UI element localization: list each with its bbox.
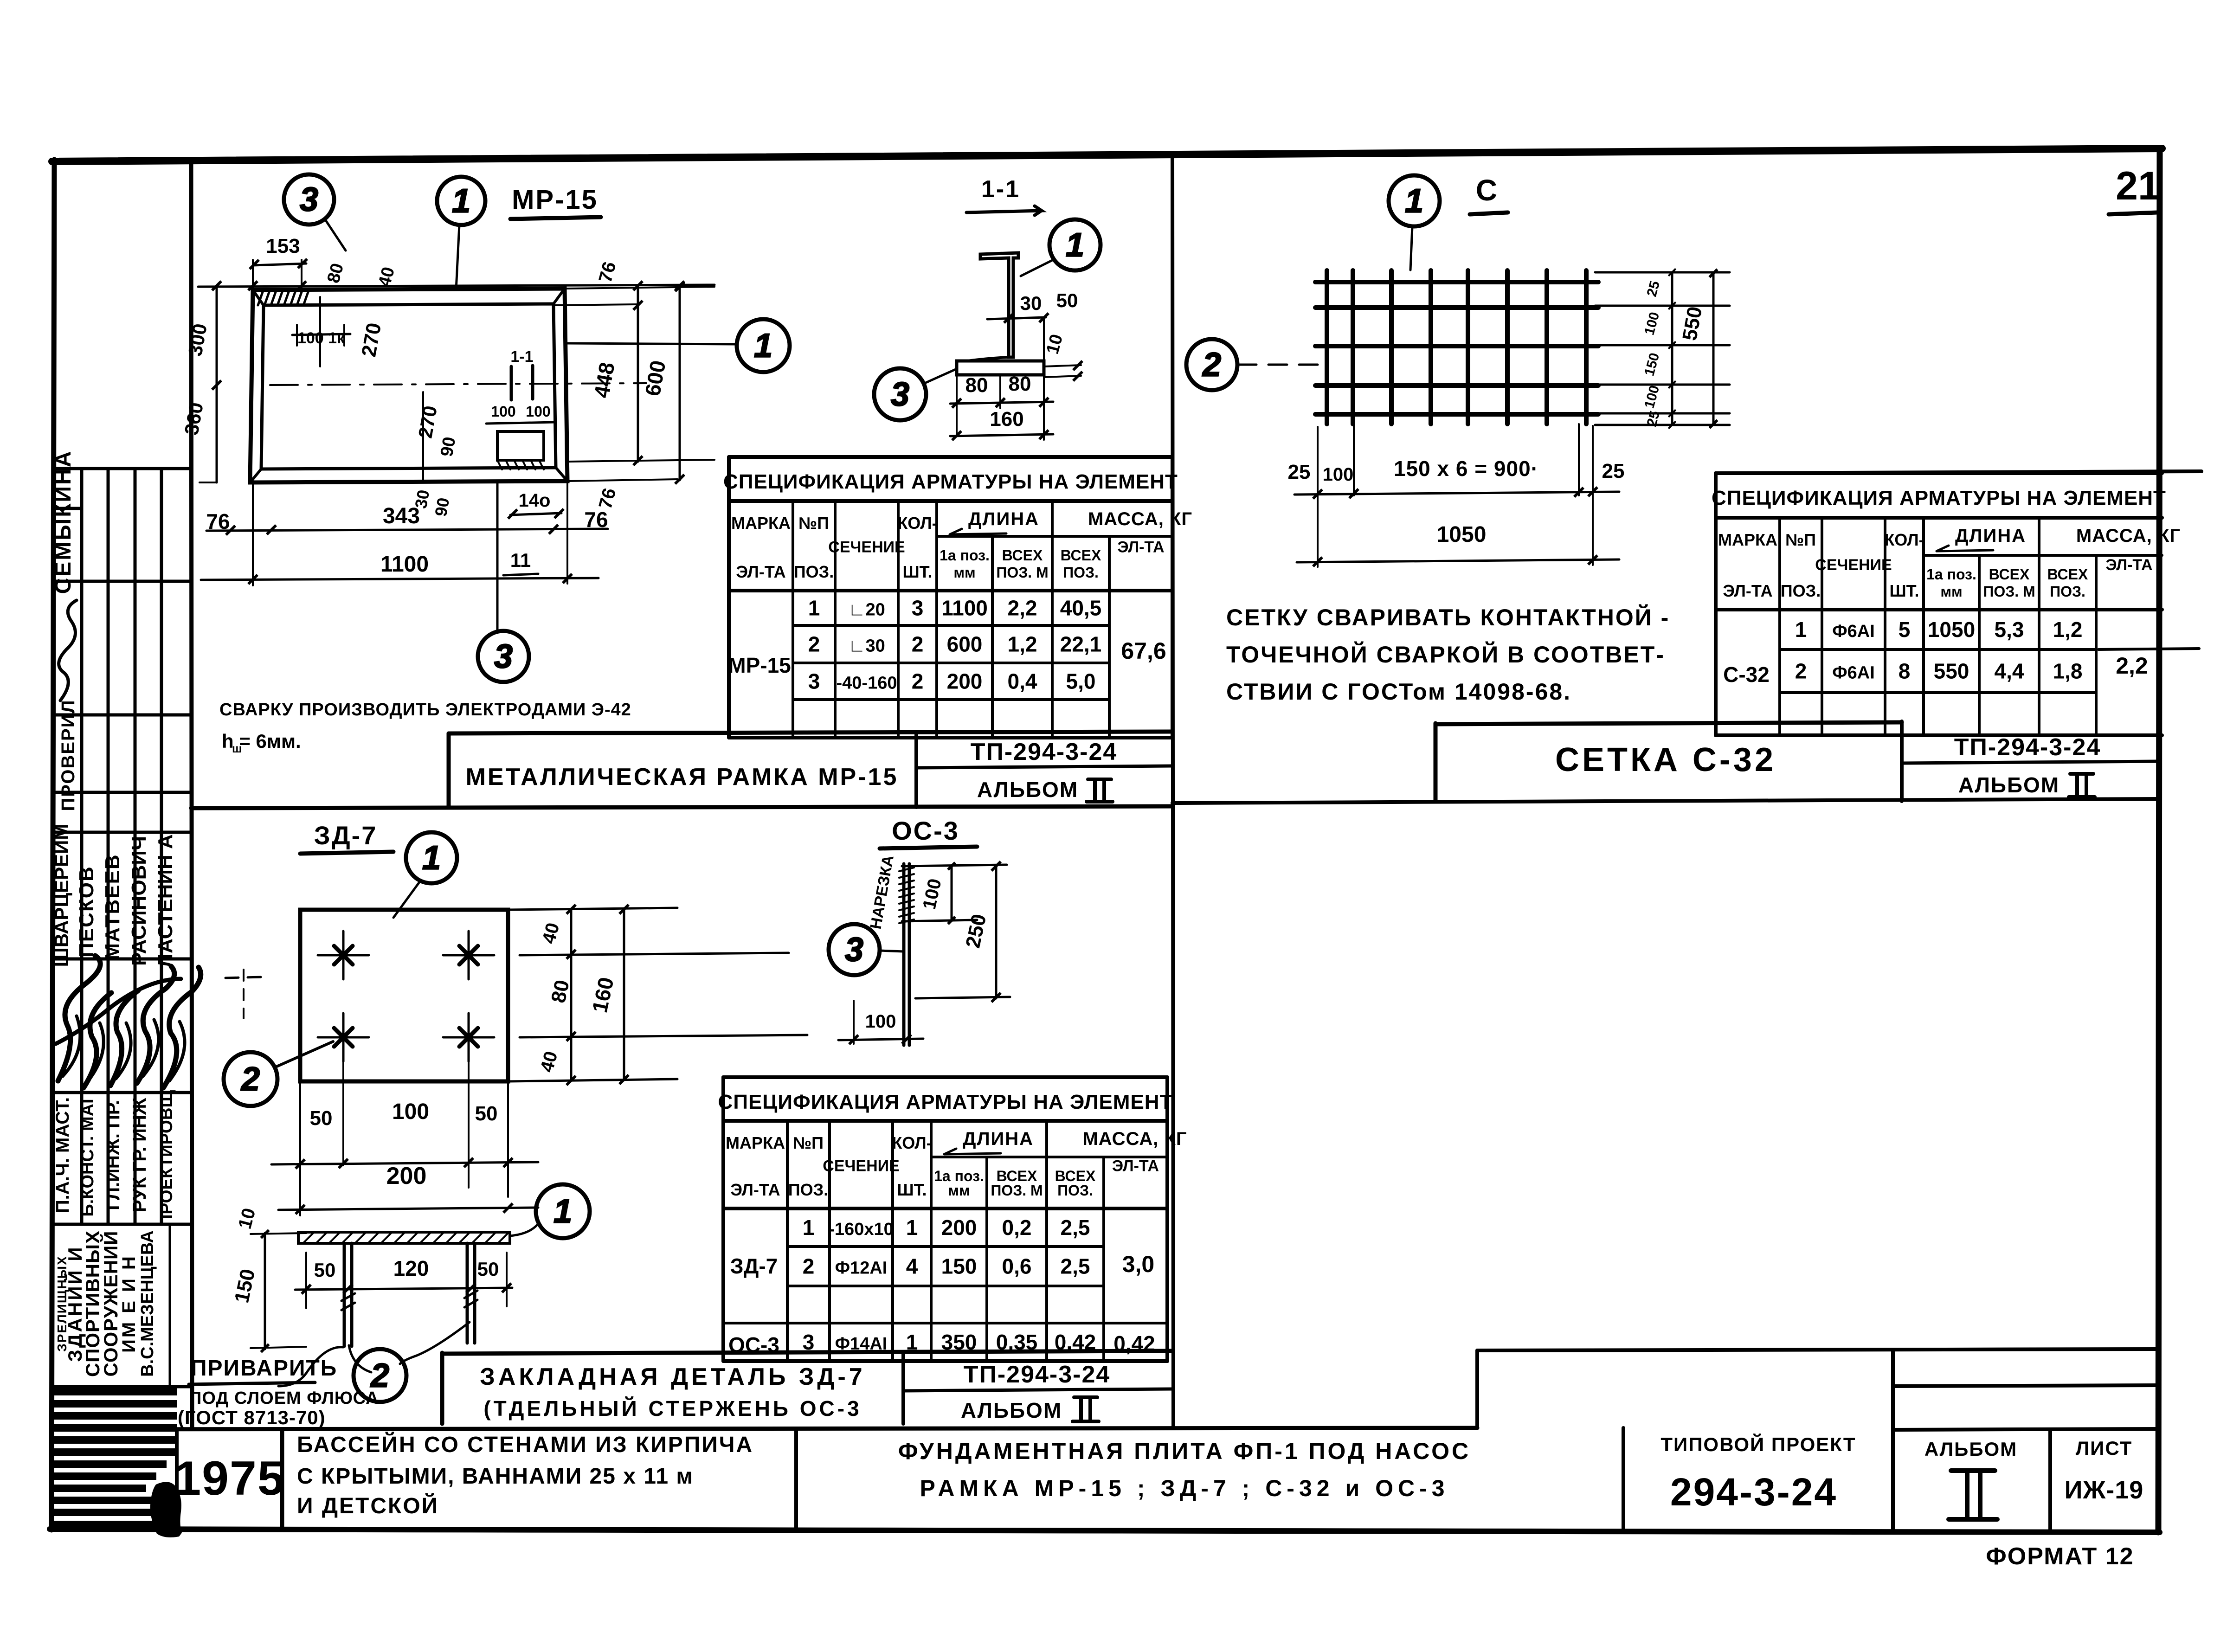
svg-text:600: 600 xyxy=(947,632,983,656)
svg-text:1,2: 1,2 xyxy=(1008,632,1037,656)
svg-text:-40-160: -40-160 xyxy=(837,674,897,693)
svg-text:2: 2 xyxy=(240,1061,260,1098)
svg-text:150: 150 xyxy=(941,1254,977,1279)
svg-text:ШТ.: ШТ. xyxy=(902,562,932,581)
mesh horizontal bars xyxy=(1315,280,1598,284)
svg-text:80: 80 xyxy=(1009,373,1031,395)
plate outline plan xyxy=(300,910,508,1081)
svg-text:ПОЗ. М: ПОЗ. М xyxy=(996,564,1048,581)
svg-text:ИМ Е И Н: ИМ Е И Н xyxy=(119,1254,139,1353)
svg-text:100 1к: 100 1к xyxy=(297,329,345,347)
svg-text:3: 3 xyxy=(845,931,863,968)
svg-text:АЛЬБОМ: АЛЬБОМ xyxy=(1958,773,2060,797)
svg-text:МАССА, КГ: МАССА, КГ xyxy=(1088,509,1192,529)
svg-text:14о: 14о xyxy=(519,490,551,511)
svg-text:ГЛ.ИНЖ. ПР.: ГЛ.ИНЖ. ПР. xyxy=(103,1100,123,1210)
ZD-7 title box xyxy=(440,1353,444,1424)
svg-text:ЛАСТЕНИН А: ЛАСТЕНИН А xyxy=(154,834,177,968)
mesh right extension lines xyxy=(1595,271,1730,274)
MP-15 title box xyxy=(449,732,1172,733)
hatch block top line xyxy=(53,1385,191,1388)
svg-text:1,2: 1,2 xyxy=(2053,617,2083,642)
right half horizontal divider xyxy=(1172,799,2158,803)
svg-text:1050: 1050 xyxy=(1437,522,1487,547)
corner weld diagonals xyxy=(253,290,264,305)
svg-text:3: 3 xyxy=(808,669,820,694)
dim 100 1k box xyxy=(296,325,298,346)
OC-3 dims xyxy=(902,865,1007,866)
svg-text:294-3-24: 294-3-24 xyxy=(1670,1470,1837,1514)
svg-text:2,5: 2,5 xyxy=(1061,1254,1090,1279)
svg-text:ЭЛ-ТА: ЭЛ-ТА xyxy=(1112,1157,1159,1175)
svg-text:30: 30 xyxy=(1020,292,1042,314)
svg-text:ПОЗ.: ПОЗ. xyxy=(1063,564,1099,581)
svg-text:80: 80 xyxy=(547,978,574,1005)
svg-text:50: 50 xyxy=(477,1258,499,1280)
svg-text:ИЖ-19: ИЖ-19 xyxy=(2065,1476,2144,1504)
svg-text:(ГОСТ 8713-70): (ГОСТ 8713-70) xyxy=(178,1407,326,1428)
svg-text:3,0: 3,0 xyxy=(1122,1251,1155,1277)
svg-text:200: 200 xyxy=(386,1163,427,1189)
svg-text:СПЕЦИФИКАЦИЯ АРМАТУРЫ НА ЭЛЕМЕ: СПЕЦИФИКАЦИЯ АРМАТУРЫ НА ЭЛЕМЕНТ xyxy=(1712,487,2166,509)
svg-text:1а поз.: 1а поз. xyxy=(940,547,990,564)
svg-text:1050: 1050 xyxy=(1928,617,1975,642)
svg-text:ПОЗ. М: ПОЗ. М xyxy=(991,1182,1043,1199)
frame outer rectangle xyxy=(250,289,567,482)
svg-text:100: 100 xyxy=(526,403,550,420)
page number underline xyxy=(2109,212,2157,214)
svg-text:мм: мм xyxy=(948,1182,970,1199)
dim line 153 xyxy=(253,264,306,265)
svg-text:ДЛИНА: ДЛИНА xyxy=(963,1129,1034,1149)
svg-text:5: 5 xyxy=(1899,617,1911,642)
svg-text:ЛИСТ: ЛИСТ xyxy=(2076,1437,2133,1459)
svg-text:5,3: 5,3 xyxy=(1995,617,2024,642)
right dim of plate xyxy=(1044,365,1081,366)
svg-text:90: 90 xyxy=(437,435,460,458)
svg-text:ПОЗ.: ПОЗ. xyxy=(2050,583,2085,600)
svg-text:ПЕСКОВ: ПЕСКОВ xyxy=(75,866,98,958)
centerline dash-dot xyxy=(270,383,646,385)
stamp signature scribble 1 xyxy=(59,600,77,701)
svg-text:ПРОВЕРИЛ: ПРОВЕРИЛ xyxy=(58,699,78,811)
svg-text:67,6: 67,6 xyxy=(1121,638,1166,664)
left half horizontal divider xyxy=(191,806,1172,808)
svg-text:СЕТКА С-32: СЕТКА С-32 xyxy=(1555,741,1776,778)
svg-text:МАРКА: МАРКА xyxy=(726,1133,785,1152)
svg-text:50: 50 xyxy=(475,1102,498,1125)
svg-text:ТОЧЕЧНОЙ СВАРКОЙ В СООТВЕТ-: ТОЧЕЧНОЙ СВАРКОЙ В СООТВЕТ- xyxy=(1226,641,1665,668)
svg-text:С-32: С-32 xyxy=(1723,662,1770,687)
svg-text:1а поз.: 1а поз. xyxy=(1926,566,1976,583)
bottom dims 50/100/50 and 200 xyxy=(299,1081,301,1215)
svg-text:4,4: 4,4 xyxy=(1995,659,2024,683)
callout circle 1 right xyxy=(737,319,790,372)
angle profile Z shape xyxy=(980,253,1018,357)
bottom dim line 343 xyxy=(206,529,608,531)
svg-text:2: 2 xyxy=(803,1254,815,1279)
svg-text:1975: 1975 xyxy=(174,1452,285,1505)
svg-text:3: 3 xyxy=(300,181,318,218)
svg-text:ЗД-7: ЗД-7 xyxy=(314,821,378,850)
svg-text:Ф6АI: Ф6АI xyxy=(1832,663,1875,683)
album II roman numeral xyxy=(1951,1468,1995,1473)
svg-text:(ТДЕЛЬНЫЙ СТЕРЖЕНЬ ОС-3: (ТДЕЛЬНЫЙ СТЕРЖЕНЬ ОС-3 xyxy=(483,1396,862,1421)
callout circle 1 top xyxy=(437,177,485,225)
svg-text:1100: 1100 xyxy=(941,596,988,620)
svg-text:1: 1 xyxy=(553,1193,572,1230)
svg-text:1: 1 xyxy=(452,182,470,219)
stamp signatures band scribbles xyxy=(58,956,100,1081)
svg-text:2,2: 2,2 xyxy=(1008,596,1037,620)
svg-text:50: 50 xyxy=(310,1107,333,1130)
svg-text:1-1: 1-1 xyxy=(981,176,1020,203)
svg-text:40,5: 40,5 xyxy=(1060,596,1102,620)
svg-text:100: 100 xyxy=(865,1011,896,1032)
frame right border xyxy=(2158,148,2160,1532)
scan smudge blob xyxy=(150,1482,182,1537)
svg-text:ПОЗ.: ПОЗ. xyxy=(1781,581,1821,600)
svg-text:ДЛИНА: ДЛИНА xyxy=(968,509,1039,529)
svg-text:АЛЬБОМ: АЛЬБОМ xyxy=(1924,1438,2017,1460)
svg-text:ТП-294-3-24: ТП-294-3-24 xyxy=(1954,734,2101,761)
svg-text:ПРОЕКТИРОВЩ: ПРОЕКТИРОВЩ xyxy=(157,1090,176,1227)
callout circle 1 section xyxy=(1049,219,1101,270)
stamp column grid xyxy=(80,469,84,1224)
svg-text:2: 2 xyxy=(912,669,924,694)
svg-text:БАССЕЙН СО СТЕНАМИ ИЗ КИРПИЧ: БАССЕЙН СО СТЕНАМИ ИЗ КИРПИЧА xyxy=(297,1432,753,1457)
side plate with hatch xyxy=(298,1232,510,1243)
svg-text:1: 1 xyxy=(754,327,772,364)
svg-text:50: 50 xyxy=(1056,289,1078,311)
svg-text:СТВИИ С ГОСТом 14098-68.: СТВИИ С ГОСТом 14098-68. xyxy=(1226,679,1571,705)
title block cell dividers xyxy=(175,1429,179,1530)
svg-text:22,1: 22,1 xyxy=(1060,632,1102,656)
svg-text:550: 550 xyxy=(1934,659,1969,683)
callout circle 1 mesh xyxy=(1389,175,1440,226)
svg-text:мм: мм xyxy=(953,564,975,581)
side legs xyxy=(343,1243,346,1346)
callout circle 2 plan xyxy=(224,1052,277,1106)
callout circle 2 mesh xyxy=(1186,339,1237,390)
dim 550 xyxy=(1712,272,1715,425)
org block right line xyxy=(169,1224,171,1387)
axis dash left xyxy=(225,977,263,978)
svg-text:КОЛ-: КОЛ- xyxy=(1884,530,1924,549)
svg-text:Б.КОНСТ. МАГ: Б.КОНСТ. МАГ xyxy=(78,1093,97,1216)
specification table MP-15 xyxy=(729,455,1172,459)
bottom dims of mesh xyxy=(1317,427,1319,499)
svg-text:АЛЬБОМ: АЛЬБОМ xyxy=(977,778,1078,802)
svg-text:1100: 1100 xyxy=(380,552,429,577)
svg-text:8: 8 xyxy=(1899,659,1911,683)
svg-text:25: 25 xyxy=(1288,461,1311,483)
svg-text:ШТ.: ШТ. xyxy=(897,1180,927,1199)
svg-text:№П: №П xyxy=(1785,530,1816,549)
left dim vertical xyxy=(216,286,218,482)
svg-text:АЛЬБОМ: АЛЬБОМ xyxy=(961,1398,1062,1422)
section mark 1-1 on centerline xyxy=(510,366,513,400)
svg-text:2,5: 2,5 xyxy=(1061,1215,1090,1240)
bottom dim 100 xyxy=(853,1001,855,1044)
svg-text:РУК ГР. ИНЖ: РУК ГР. ИНЖ xyxy=(129,1098,150,1212)
svg-text:ФОРМАТ 12: ФОРМАТ 12 xyxy=(1986,1543,2134,1570)
cross centerlines extended xyxy=(520,953,789,955)
svg-text:№П: №П xyxy=(798,514,829,533)
frame top border xyxy=(52,148,2162,161)
svg-text:3: 3 xyxy=(891,376,909,413)
svg-text:4: 4 xyxy=(906,1254,918,1279)
svg-text:1: 1 xyxy=(1405,182,1423,219)
baseplate xyxy=(957,361,1044,375)
dim 1050 xyxy=(1317,499,1319,567)
svg-text:ПОЗ.: ПОЗ. xyxy=(1057,1182,1093,1199)
right dim line with segment labels xyxy=(1671,272,1673,425)
svg-text:ЗД-7: ЗД-7 xyxy=(730,1254,778,1278)
callout circle 3 top xyxy=(284,174,334,225)
callout circle 3 OC-3 xyxy=(829,924,880,975)
svg-text:343: 343 xyxy=(383,504,420,528)
svg-text:ШТ.: ШТ. xyxy=(1889,581,1919,600)
svg-text:Ф6АI: Ф6АI xyxy=(1832,622,1875,641)
svg-text:СООРУЖЕНИЙ: СООРУЖЕНИЙ xyxy=(99,1231,122,1377)
svg-text:2,2: 2,2 xyxy=(2116,653,2148,679)
svg-text:-160х10: -160х10 xyxy=(829,1220,893,1239)
svg-text:25: 25 xyxy=(1602,460,1625,482)
leader from circle 1 xyxy=(456,225,459,290)
svg-text:ФУНДАМЕНТНАЯ ПЛИТА ФП-1 ПОД: ФУНДАМЕНТНАЯ ПЛИТА ФП-1 ПОД НАСОС xyxy=(898,1438,1471,1464)
svg-text:ЭЛ-ТА: ЭЛ-ТА xyxy=(2105,556,2152,574)
callout circle 2 side with wavy leaders xyxy=(354,1349,406,1402)
svg-text:80: 80 xyxy=(965,374,988,397)
svg-text:76: 76 xyxy=(584,508,608,532)
svg-text:Ф12АI: Ф12АI xyxy=(835,1259,888,1278)
svg-text:СЕТКУ СВАРИВАТЬ КОНТАКТНОЙ -: СЕТКУ СВАРИВАТЬ КОНТАКТНОЙ - xyxy=(1226,604,1670,630)
svg-text:СВАРКУ ПРОИЗВОДИТЬ ЭЛЕКТРОДА: СВАРКУ ПРОИЗВОДИТЬ ЭЛЕКТРОДАМИ Э-42 xyxy=(219,700,631,720)
svg-text:МАРКА: МАРКА xyxy=(731,514,791,533)
svg-text:ВСЕХ: ВСЕХ xyxy=(1989,566,2030,583)
svg-text:РАСИНОВИЧ: РАСИНОВИЧ xyxy=(128,836,150,966)
svg-text:1: 1 xyxy=(808,596,820,620)
svg-text:3: 3 xyxy=(494,638,513,675)
callout circle 1 ZD-7 xyxy=(406,832,457,883)
svg-text:1,8: 1,8 xyxy=(2053,659,2083,683)
svg-text:ЭЛ-ТА: ЭЛ-ТА xyxy=(1723,581,1772,600)
svg-text:ВСЕХ: ВСЕХ xyxy=(1061,547,1101,564)
svg-text:2: 2 xyxy=(808,632,820,656)
svg-text:мм: мм xyxy=(1940,583,1962,600)
svg-text:ТИПОВОЙ ПРОЕКТ: ТИПОВОЙ ПРОЕКТ xyxy=(1660,1433,1856,1455)
svg-text:ОС-3: ОС-3 xyxy=(892,816,959,845)
svg-text:МАССА, КГ: МАССА, КГ xyxy=(2076,526,2181,546)
svg-text:В.С.МЕЗЕНЦЕВА: В.С.МЕЗЕНЦЕВА xyxy=(138,1230,157,1377)
svg-text:100: 100 xyxy=(392,1099,429,1124)
bottom dim line 1100 xyxy=(201,578,599,580)
svg-text:1: 1 xyxy=(422,839,441,876)
svg-text:ПОЗ.: ПОЗ. xyxy=(788,1180,828,1199)
svg-text:1: 1 xyxy=(1066,226,1084,264)
svg-text:ПОЗ. М: ПОЗ. М xyxy=(1983,583,2035,600)
svg-text:РАМКА МР-15 ; ЗД-7 ; С-32: РАМКА МР-15 ; ЗД-7 ; С-32 и ОС-3 xyxy=(920,1475,1449,1501)
svg-text:И ДЕТСКОЙ: И ДЕТСКОЙ xyxy=(297,1493,439,1518)
svg-text:76: 76 xyxy=(206,509,230,534)
callout circle 1 side xyxy=(536,1184,590,1238)
callout circle 3 section xyxy=(874,368,926,420)
svg-text:120: 120 xyxy=(393,1256,429,1280)
svg-text:∟20: ∟20 xyxy=(848,600,885,620)
title block step outline xyxy=(1475,1350,1479,1428)
svg-text:21: 21 xyxy=(2116,164,2160,208)
svg-text:ПОД СЛОЕМ ФЛЮСА: ПОД СЛОЕМ ФЛЮСА xyxy=(189,1388,379,1408)
svg-text:МАССА, КГ: МАССА, КГ xyxy=(1082,1129,1187,1149)
svg-text:ТП-294-3-24: ТП-294-3-24 xyxy=(964,1361,1111,1388)
svg-text:СЕМЫКИНА: СЕМЫКИНА xyxy=(51,450,76,594)
svg-text:КОЛ-: КОЛ- xyxy=(892,1133,932,1152)
svg-text:0,2: 0,2 xyxy=(1002,1215,1032,1240)
anchor plate detail in frame xyxy=(497,431,544,460)
frame bottom border xyxy=(50,1529,2160,1532)
svg-text:2: 2 xyxy=(912,632,924,656)
svg-text:СПЕЦИФИКАЦИЯ АРМАТУРЫ НА ЭЛЕМЕ: СПЕЦИФИКАЦИЯ АРМАТУРЫ НА ЭЛЕМЕНТ xyxy=(718,1091,1173,1113)
svg-text:КОЛ-: КОЛ- xyxy=(897,514,937,533)
callout circle 3 bottom xyxy=(478,631,529,682)
svg-text:ш: ш xyxy=(232,741,242,755)
weld seam hatch top edge xyxy=(258,289,264,305)
svg-text:1: 1 xyxy=(1795,617,1807,642)
table C-32 overshoot lines xyxy=(1716,471,2201,473)
frame inner rectangle xyxy=(261,304,556,469)
svg-text:ДЛИНА: ДЛИНА xyxy=(1955,526,2026,546)
svg-text:160: 160 xyxy=(990,408,1023,431)
svg-text:СЕЧЕНИЕ: СЕЧЕНИЕ xyxy=(1815,556,1892,574)
MP-15 underline xyxy=(510,217,601,219)
frame left border xyxy=(51,160,54,1530)
right side dims 448/600 xyxy=(565,287,714,289)
svg-text:МАРКА: МАРКА xyxy=(1718,530,1777,549)
svg-text:СЕЧЕНИЕ: СЕЧЕНИЕ xyxy=(828,539,905,556)
C-32 title box xyxy=(1434,723,1438,801)
svg-text:ЭЛ-ТА: ЭЛ-ТА xyxy=(1117,539,1164,556)
svg-text:ПОЗ.: ПОЗ. xyxy=(794,562,834,581)
title block top line xyxy=(53,1428,1477,1429)
svg-text:200: 200 xyxy=(941,1215,977,1240)
svg-text:ВСЕХ: ВСЕХ xyxy=(2047,566,2088,583)
anchor cross marks xyxy=(318,954,369,957)
svg-text:ТП-294-3-24: ТП-294-3-24 xyxy=(971,739,1118,765)
leader line to circle 1 right xyxy=(567,343,737,344)
svg-text:СЕЧЕНИЕ: СЕЧЕНИЕ xyxy=(823,1157,899,1175)
svg-text:153: 153 xyxy=(266,235,300,257)
svg-text:2: 2 xyxy=(1795,659,1807,683)
svg-text:ЭЛ-ТА: ЭЛ-ТА xyxy=(736,562,785,581)
specification table ZD-7 xyxy=(723,1075,1167,1079)
central vertical divider xyxy=(1172,157,1173,1428)
svg-text:МЕТАЛЛИЧЕСКАЯ РАМКА МР-15: МЕТАЛЛИЧЕСКАЯ РАМКА МР-15 xyxy=(466,764,899,791)
stamp column right edge xyxy=(191,161,192,1429)
svg-text:100: 100 xyxy=(491,403,515,420)
svg-text:∟30: ∟30 xyxy=(848,636,885,656)
svg-text:5,0: 5,0 xyxy=(1066,669,1096,694)
svg-text:90: 90 xyxy=(431,496,453,518)
svg-text:П.А.Ч. МАСТ.: П.А.Ч. МАСТ. xyxy=(52,1097,73,1213)
mesh vertical bars xyxy=(1325,270,1329,424)
hatched corner block xyxy=(51,1388,177,1395)
svg-text:МР-15: МР-15 xyxy=(512,185,598,215)
svg-text:МР-15: МР-15 xyxy=(728,653,791,677)
svg-text:1: 1 xyxy=(906,1215,918,1240)
svg-text:3: 3 xyxy=(912,596,924,620)
svg-text:0,4: 0,4 xyxy=(1008,669,1037,694)
svg-text:11: 11 xyxy=(510,549,531,571)
svg-text:С КРЫТЫМИ, ВАННАМИ 25 х 11 м: С КРЫТЫМИ, ВАННАМИ 25 х 11 м xyxy=(297,1464,694,1489)
svg-text:ВСЕХ: ВСЕХ xyxy=(1002,547,1043,564)
right dims 40/80/40/160 xyxy=(508,908,677,910)
specification table C-32 xyxy=(1716,471,2162,475)
svg-text:2: 2 xyxy=(1202,346,1221,383)
rod vertical xyxy=(902,864,906,1045)
svg-text:1-1: 1-1 xyxy=(510,348,533,366)
svg-text:150 х 6 = 900·: 150 х 6 = 900· xyxy=(1394,456,1538,481)
svg-text:ЗАКЛАДНАЯ ДЕТАЛЬ ЗД-7: ЗАКЛАДНАЯ ДЕТАЛЬ ЗД-7 xyxy=(480,1363,865,1390)
svg-text:0,6: 0,6 xyxy=(1002,1254,1032,1279)
svg-text:100: 100 xyxy=(1323,464,1354,485)
svg-text:50: 50 xyxy=(314,1259,336,1281)
svg-text:ШВАРЦЕРЕЙМ: ШВАРЦЕРЕЙМ xyxy=(50,824,72,967)
svg-text:СПЕЦИФИКАЦИЯ АРМАТУРЫ НА ЭЛЕМЕ: СПЕЦИФИКАЦИЯ АРМАТУРЫ НА ЭЛЕМЕНТ xyxy=(723,470,1178,493)
leader to circle 3 bottom xyxy=(496,482,499,631)
top dimension line xyxy=(198,285,714,287)
svg-text:ЭЛ-ТА: ЭЛ-ТА xyxy=(730,1180,780,1199)
svg-text:МАТВЕЕВ: МАТВЕЕВ xyxy=(101,854,124,960)
svg-text:№П: №П xyxy=(793,1133,824,1152)
svg-text:200: 200 xyxy=(947,669,983,694)
svg-text:С: С xyxy=(1476,174,1498,207)
svg-text:1: 1 xyxy=(803,1215,815,1240)
